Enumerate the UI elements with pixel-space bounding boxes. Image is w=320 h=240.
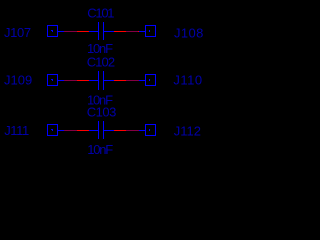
svg-text:10nF: 10nF (87, 93, 113, 108)
svg-text:J108: J108 (174, 26, 204, 41)
svg-text:J107: J107 (4, 25, 31, 40)
svg-text:J109: J109 (4, 72, 32, 87)
svg-text:J112: J112 (174, 123, 201, 138)
svg-text:C101: C101 (87, 5, 114, 20)
svg-text:J110: J110 (173, 73, 202, 88)
svg-text:10nF: 10nF (87, 41, 113, 56)
svg-text:J111: J111 (4, 123, 29, 138)
svg-text:10nF: 10nF (87, 142, 113, 157)
svg-text:C102: C102 (87, 54, 115, 69)
